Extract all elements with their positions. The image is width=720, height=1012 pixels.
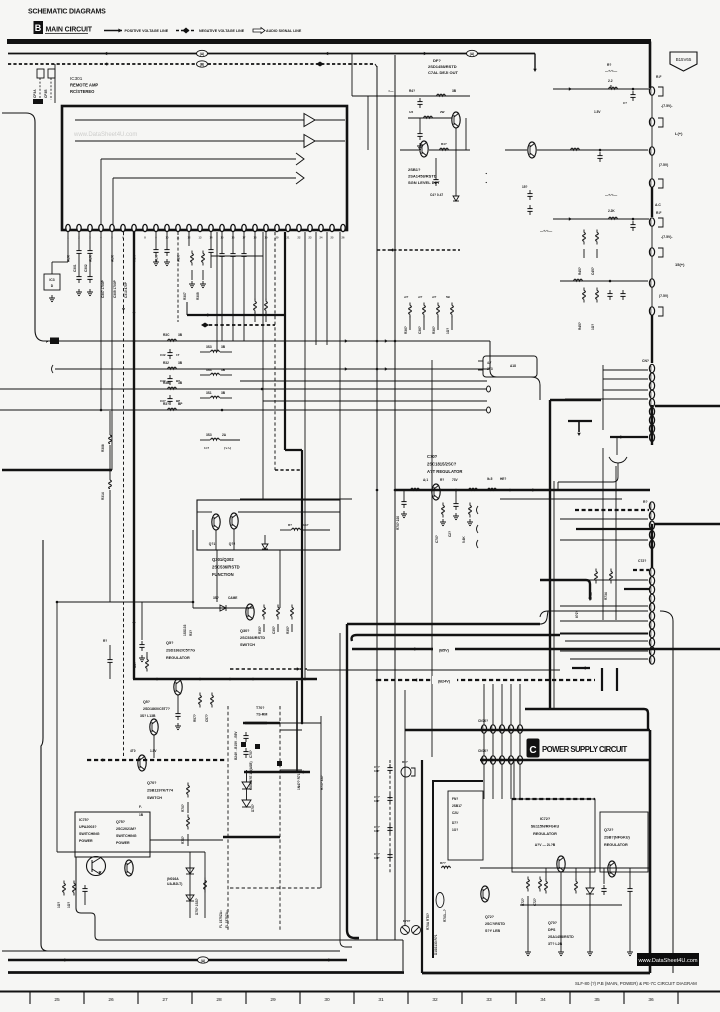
svg-text:Ik⋅5: Ik⋅5 bbox=[487, 477, 493, 481]
svg-text:xI?: xI? bbox=[432, 295, 437, 299]
svg-text:4.7: 4.7 bbox=[487, 361, 492, 365]
wire y256 link bbox=[211, 255, 263, 257]
wire pin14-16 stubs bbox=[221, 232, 223, 250]
transistor Q724 bbox=[481, 886, 489, 902]
capacitor C305 cluster bbox=[155, 232, 157, 246]
wire function block internals bbox=[197, 511, 212, 513]
pin 18 of IC301 bbox=[253, 224, 257, 231]
resistor network R333 bbox=[211, 396, 220, 398]
svg-text:A.C: A.C bbox=[655, 203, 661, 207]
wire x193 riser bbox=[192, 530, 194, 608]
wire thin return row segment B bbox=[500, 498, 622, 500]
transistor Q403 on feed bbox=[528, 142, 536, 158]
resistor R324 on row4 bbox=[168, 408, 177, 410]
wire dashed transformer core right bbox=[279, 706, 281, 930]
pin 25 of IC301 bbox=[330, 224, 334, 231]
wire dashed stub y250 bbox=[377, 249, 460, 251]
wire feed column x405 bbox=[404, 690, 406, 925]
wire pin19 long drop bbox=[284, 232, 286, 450]
svg-text:∘: ∘ bbox=[485, 171, 488, 176]
wire thick stub with right arrow bbox=[572, 667, 590, 669]
svg-text:T70?: T70? bbox=[256, 706, 264, 710]
resistor R341 in block bbox=[292, 528, 301, 530]
resistor R723 bbox=[545, 879, 547, 882]
capacitor C573 bbox=[177, 695, 179, 710]
connector CN701 pin 2 bbox=[490, 725, 495, 733]
resistor R314 bbox=[109, 477, 111, 480]
svg-text:13: 13 bbox=[199, 236, 202, 240]
section badge B bbox=[34, 21, 44, 34]
pin 14 of IC301 bbox=[209, 224, 213, 231]
svg-text:C57?: C57? bbox=[205, 714, 209, 722]
pin 21 of IC301 bbox=[286, 224, 290, 231]
wire thin x554 bbox=[553, 481, 555, 709]
connector CN302 pin 2 bbox=[649, 511, 654, 519]
svg-text:28: 28 bbox=[216, 997, 222, 1003]
svg-text:2W: 2W bbox=[440, 110, 445, 114]
wire secondary taps bbox=[280, 729, 302, 731]
svg-text:2SC536/RSTD: 2SC536/RSTD bbox=[240, 636, 265, 640]
svg-text:10P: 10P bbox=[374, 769, 379, 773]
svg-text:2SD1862/C5T7G: 2SD1862/C5T7G bbox=[166, 649, 195, 653]
resistor stack R722 bbox=[539, 877, 541, 880]
capacitor C703 below rail bbox=[455, 490, 457, 500]
pin 20 of IC301 bbox=[275, 224, 279, 231]
svg-text:Q75?: Q75? bbox=[116, 820, 125, 824]
svg-text:IC3: IC3 bbox=[49, 278, 54, 282]
svg-text:27: 27 bbox=[162, 997, 168, 1003]
resistor R303 bbox=[67, 232, 69, 243]
wire interior verticals bbox=[513, 760, 515, 800]
svg-text:3B: 3B bbox=[221, 345, 226, 349]
wire pin18 drop bbox=[265, 232, 267, 300]
connector CN702 pin 4 bbox=[508, 756, 513, 764]
svg-text:34: 34 bbox=[540, 997, 546, 1003]
svg-text:20: 20 bbox=[276, 236, 279, 240]
resistor R726 bbox=[442, 866, 451, 868]
svg-text:—∿∿—: —∿∿— bbox=[540, 229, 553, 233]
pin 23 of IC301 bbox=[308, 224, 312, 231]
svg-text:D1SS133 R?1: D1SS133 R?1 bbox=[434, 934, 438, 955]
wire thick jog pin19 bbox=[285, 449, 302, 451]
svg-text:3B: 3B bbox=[178, 381, 183, 385]
svg-text:C70?: C70? bbox=[435, 535, 439, 543]
transistor Q301 bbox=[212, 514, 220, 530]
wire thick dashed switch rail bbox=[87, 759, 227, 761]
svg-text:IC301: IC301 bbox=[70, 76, 83, 81]
svg-text:—∿∿—: —∿∿— bbox=[605, 193, 618, 197]
wire pin22 drop bbox=[326, 232, 328, 345]
wire audio bus row 2b bbox=[240, 380, 487, 382]
wire row1/2 terminus corner bbox=[490, 341, 540, 400]
svg-text:Q5?: Q5? bbox=[143, 700, 150, 704]
wire riser x217 below function box bbox=[216, 550, 218, 602]
svg-text:A;1: A;1 bbox=[423, 478, 428, 482]
wire pin6 dashed control line bbox=[123, 232, 125, 758]
wire thin row y519 bbox=[560, 518, 648, 520]
connector CN702 pin 5 bbox=[517, 756, 522, 764]
capacitor C751 bbox=[84, 885, 86, 889]
connector CN303 pin 4 bbox=[649, 594, 654, 602]
capacitor C705 stack bbox=[245, 732, 247, 736]
wire thin vertical x321 bbox=[320, 716, 322, 888]
svg-text:B15V65: B15V65 bbox=[676, 57, 692, 62]
resistor R707 bbox=[187, 815, 189, 818]
wire thick drop to label T bbox=[649, 730, 652, 973]
capacitor C724 bbox=[603, 885, 605, 889]
svg-text:A?V — 2L?B: A?V — 2L?B bbox=[535, 843, 556, 847]
svg-text:C2U: C2U bbox=[452, 811, 459, 815]
svg-text:Q30?: Q30? bbox=[240, 629, 250, 633]
wires to CN301 pins bbox=[603, 369, 648, 371]
connector CN301 pin 2 bbox=[649, 373, 654, 381]
svg-text:SWITCH: SWITCH bbox=[240, 643, 255, 647]
svg-text:2SB?(NFGKU): 2SB?(NFGKU) bbox=[604, 836, 630, 840]
wire thick feed y709 bbox=[525, 708, 644, 710]
svg-text:3B: 3B bbox=[178, 361, 183, 365]
transformer T701 top bar bbox=[245, 722, 280, 725]
svg-text:AUX: AUX bbox=[133, 254, 137, 262]
svg-text:22: 22 bbox=[298, 236, 301, 240]
wire second voltage bus bbox=[8, 53, 535, 55]
connector CN303 pin 9 bbox=[649, 638, 654, 646]
svg-text:2SB1197K/T74: 2SB1197K/T74 bbox=[147, 789, 174, 793]
wire thick regulator rail bbox=[133, 678, 317, 680]
wire drop x403 to bottom bus bbox=[402, 940, 404, 971]
wire thick connector link bbox=[651, 405, 653, 445]
resistor R755 column bbox=[204, 852, 206, 918]
connector CN301 pin 7 bbox=[649, 416, 654, 424]
connector R-OUT pin 1 bbox=[649, 87, 654, 95]
svg-text:1O?: 1O? bbox=[57, 902, 61, 908]
resistor network R331 row1 bbox=[211, 350, 220, 352]
svg-text:SWITCH: SWITCH bbox=[147, 796, 162, 800]
wire Q751 base feed bbox=[75, 851, 92, 853]
svg-text:C2?: C2? bbox=[448, 531, 452, 537]
svg-text:1O?: 1O? bbox=[452, 828, 458, 832]
wire top stub v bbox=[351, 54, 353, 97]
wire pin23 long thin drop bbox=[339, 232, 341, 500]
wire from dashed bus down to IC301 area bbox=[54, 64, 56, 103]
svg-text:2SC2021M?: 2SC2021M? bbox=[116, 827, 136, 831]
node A2 oval on bus bbox=[467, 50, 478, 56]
transistor Q725 bottom left of box bbox=[436, 893, 444, 908]
svg-text:HE?: HE? bbox=[500, 477, 506, 481]
wire stub x422 bbox=[421, 945, 423, 973]
wire sub-circuit left rail bbox=[367, 96, 369, 150]
svg-text:S?Y LEB: S?Y LEB bbox=[485, 929, 501, 933]
wire thick drop x302 bbox=[301, 450, 303, 723]
svg-text:3B: 3B bbox=[221, 391, 226, 395]
wire thick row y529 bbox=[576, 528, 652, 530]
wire main vertical bus V2 bbox=[394, 55, 396, 940]
svg-text:D75? 1SS?: D75? 1SS? bbox=[195, 898, 199, 915]
capacitor C702 below rail bbox=[403, 490, 405, 498]
svg-text:REMOTE AMP: REMOTE AMP bbox=[70, 83, 98, 88]
svg-text:1.5V: 1.5V bbox=[150, 749, 157, 753]
wire thick out to edge 2 bbox=[655, 523, 720, 526]
pin 3 of IC301 bbox=[88, 224, 92, 231]
wire sub-circuit right rail bbox=[465, 118, 467, 150]
op-amp IC301 main block bbox=[62, 106, 347, 230]
svg-text:C70?: C70? bbox=[427, 454, 438, 459]
wire thick stub 2 bbox=[610, 436, 648, 438]
transistor Q303 bbox=[246, 604, 254, 620]
wire vertical x263 bbox=[262, 232, 264, 500]
wire audio bus row 3b bbox=[263, 400, 487, 402]
wire feed to connector pin7 bbox=[560, 280, 648, 282]
svg-text:RC/STEREO: RC/STEREO bbox=[70, 89, 95, 94]
svg-text:Q72?: Q72? bbox=[604, 828, 614, 832]
svg-text:DF?: DF? bbox=[433, 58, 441, 63]
wire thick regulated rail bbox=[395, 489, 650, 491]
wire negative dashed bus bbox=[8, 63, 375, 65]
svg-text:1SS133: 1SS133 bbox=[183, 624, 187, 636]
wire thin primary extension bbox=[267, 722, 321, 724]
pin 10 of IC301 bbox=[165, 224, 169, 231]
pin 12 of IC301 bbox=[187, 224, 191, 231]
pin 4 of IC301 bbox=[99, 224, 103, 231]
svg-text:POWER: POWER bbox=[116, 841, 130, 845]
svg-text:3S3: 3S3 bbox=[206, 368, 212, 372]
svg-text:C32: C32 bbox=[160, 353, 166, 357]
diode D706 bbox=[242, 800, 251, 807]
svg-text:POWER SUPPLY CIRCUIT: POWER SUPPLY CIRCUIT bbox=[542, 745, 628, 754]
transistor Q751 power bbox=[87, 857, 106, 876]
diode D704 circled bbox=[412, 926, 421, 935]
connector CN301 pin 5 bbox=[649, 399, 654, 407]
svg-text:?S-RM: ?S-RM bbox=[256, 713, 267, 717]
svg-text:L(+): L(+) bbox=[675, 131, 683, 136]
svg-text:3S?: 3S? bbox=[213, 596, 219, 600]
svg-text:(B): (B) bbox=[200, 63, 204, 67]
wire thick drop x297 bbox=[296, 681, 298, 772]
wire audio bus row 2 bbox=[55, 368, 490, 370]
connector pin 7 bbox=[649, 279, 654, 287]
transistor Q752 bbox=[125, 860, 133, 876]
diode D401 bbox=[455, 128, 457, 196]
svg-text:POWER: POWER bbox=[79, 839, 93, 843]
svg-text:A?T REGULATOR: A?T REGULATOR bbox=[427, 469, 462, 474]
wire verticals x616 lower bbox=[615, 466, 617, 620]
wire right edge rail x673 bbox=[660, 611, 673, 973]
svg-text:R71? 3A?: R71? 3A? bbox=[320, 775, 324, 790]
resistor stack R721 bbox=[527, 877, 529, 880]
svg-text:CN70?: CN70? bbox=[478, 719, 488, 723]
pin 11 of IC301 bbox=[176, 224, 180, 231]
wire pin10 dashed drop bbox=[177, 232, 179, 320]
connector CN302 pin 1 bbox=[649, 502, 654, 510]
svg-text:R4?: R4? bbox=[409, 89, 415, 93]
svg-text:32: 32 bbox=[432, 997, 438, 1003]
svg-text:R?: R? bbox=[440, 478, 444, 482]
wire primary return to bridge bbox=[95, 936, 403, 940]
svg-text:FL 1575ZA□: FL 1575ZA□ bbox=[219, 910, 223, 928]
connector pin 4 bbox=[649, 179, 654, 187]
svg-text:5B: 5B bbox=[446, 295, 451, 299]
svg-text:10P: 10P bbox=[374, 829, 379, 833]
svg-text:33: 33 bbox=[486, 997, 492, 1003]
capacitor C714 bbox=[389, 851, 391, 855]
svg-text:(∿∿): (∿∿) bbox=[224, 446, 231, 450]
resistor R311 row bbox=[254, 299, 256, 302]
svg-text:(7.5V): (7.5V) bbox=[659, 163, 668, 167]
svg-text:3T? L2B: 3T? L2B bbox=[548, 942, 563, 946]
svg-text:R35?: R35? bbox=[258, 626, 262, 634]
wire vertical bus V3 bbox=[431, 360, 433, 757]
svg-text:CN?: CN? bbox=[642, 359, 649, 363]
capacitor C322 bbox=[169, 375, 171, 379]
capacitor C321 bbox=[169, 349, 171, 353]
connector pin 8 bbox=[649, 307, 654, 315]
svg-text:AUX: AUX bbox=[111, 254, 115, 262]
svg-text:∘: ∘ bbox=[485, 180, 488, 185]
svg-text:C70?: C70? bbox=[249, 750, 253, 758]
svg-text:C309 1700P: C309 1700P bbox=[113, 279, 117, 298]
svg-text:3S1: 3S1 bbox=[206, 391, 212, 395]
svg-text:R.F: R.F bbox=[656, 75, 661, 79]
resistor pair lower bbox=[211, 438, 220, 440]
wire risers from pins to stages bbox=[100, 159, 102, 226]
transistor Q402 bbox=[420, 141, 428, 157]
svg-text:1O?: 1O? bbox=[591, 324, 595, 330]
resistor R571 above rail bbox=[146, 657, 148, 660]
resistor R322 on row2 bbox=[168, 367, 177, 369]
connector CN702 pin 1 bbox=[481, 756, 486, 764]
wire x617 drop bbox=[616, 437, 618, 455]
pin 9 of IC301 bbox=[154, 224, 158, 231]
svg-text:SWITCHING: SWITCHING bbox=[79, 832, 100, 836]
svg-text:C45?: C45? bbox=[591, 267, 595, 275]
wire thick bus y730 bbox=[405, 729, 650, 732]
wire pin21 drop bbox=[315, 232, 317, 345]
wire thin return row segment A bbox=[240, 498, 352, 500]
component black marker near frame bbox=[33, 99, 43, 104]
svg-text:2SC536/RSTD: 2SC536/RSTD bbox=[212, 565, 240, 570]
svg-text:(A): (A) bbox=[470, 52, 474, 56]
svg-text:4T0: 4T0 bbox=[130, 749, 136, 753]
bracket shell pin1 bbox=[658, 87, 663, 96]
diode D751 column bbox=[189, 852, 191, 918]
svg-text:C35?: C35? bbox=[272, 626, 276, 634]
pin 1 of IC301 bbox=[66, 224, 70, 231]
wire inner thick rail y635 bbox=[352, 635, 560, 641]
svg-text:CAME: CAME bbox=[228, 596, 237, 600]
connector CP301 bbox=[37, 69, 44, 78]
node B oval on dashed bus bbox=[197, 61, 208, 67]
svg-text:1.5V: 1.5V bbox=[594, 110, 601, 114]
diode D705 bbox=[242, 782, 251, 789]
transistor Q723 bbox=[608, 861, 616, 877]
svg-text:29: 29 bbox=[270, 997, 276, 1003]
svg-text:R?: R? bbox=[103, 639, 107, 643]
wire thick T70 feed bbox=[550, 399, 601, 401]
wire audio bus row 3 bbox=[0, 388, 487, 390]
wire thick B+ stub left bbox=[2, 469, 112, 471]
resistor R706 bbox=[187, 783, 189, 786]
wire detector top rail bbox=[352, 95, 470, 97]
svg-text:3B: 3B bbox=[178, 333, 183, 337]
svg-text:R309: R309 bbox=[196, 292, 200, 300]
ruler ticks bbox=[29, 992, 31, 1005]
limiter stage 1 inside IC301 bbox=[101, 158, 296, 160]
svg-text:25: 25 bbox=[54, 997, 60, 1003]
svg-text:R?: R? bbox=[288, 523, 292, 527]
connector CN303 pin 2 bbox=[649, 577, 654, 585]
svg-text:R3C: R3C bbox=[163, 333, 170, 337]
legend positive voltage line bbox=[104, 30, 122, 32]
capacitor C712 bbox=[389, 794, 391, 798]
wire main B+ bus (thick top bar) bbox=[7, 39, 651, 44]
wire to R-OUT with resistor R451 bbox=[553, 88, 649, 90]
wire verticals x603 lower bbox=[602, 448, 604, 620]
resistor network R332 bbox=[211, 373, 220, 375]
svg-text:C72?: C72? bbox=[638, 559, 646, 563]
connector CN301 pin 6 bbox=[649, 407, 654, 415]
svg-text:2SD1458/RSTD: 2SD1458/RSTD bbox=[428, 64, 457, 69]
diode D303 bbox=[262, 544, 268, 549]
resistor R724 bbox=[575, 879, 577, 882]
svg-text:21: 21 bbox=[287, 236, 290, 240]
svg-text:R3?: R3? bbox=[163, 402, 169, 406]
capacitor C571 above rail bbox=[109, 645, 111, 656]
pin 17 of IC301 bbox=[242, 224, 246, 231]
wire riser x280 below function box bbox=[279, 550, 281, 608]
svg-text:R45?: R45? bbox=[578, 322, 582, 330]
svg-text:R?: R? bbox=[607, 63, 611, 67]
node A oval bottom bbox=[198, 957, 209, 963]
ruler line bbox=[0, 991, 720, 993]
svg-text:1S?: 1S? bbox=[303, 523, 309, 527]
wire between connector groups bbox=[651, 95, 653, 118]
capacitor row near IC right bbox=[529, 190, 531, 194]
svg-text:(N016A: (N016A bbox=[167, 877, 179, 881]
connector CN702 pin 2 bbox=[490, 756, 495, 764]
svg-text:AUX: AUX bbox=[155, 254, 159, 262]
wire thick bus y760 bbox=[480, 759, 650, 762]
connector CN303 pin 8 bbox=[649, 629, 654, 637]
block IC721 regulator bbox=[512, 798, 595, 800]
svg-text:25: 25 bbox=[331, 236, 334, 240]
svg-text:2SA1458/RSTD: 2SA1458/RSTD bbox=[408, 174, 437, 179]
svg-text:31: 31 bbox=[378, 997, 384, 1003]
pin 24 of IC301 bbox=[319, 224, 323, 231]
curly brace junction bbox=[609, 457, 627, 463]
frame left border lower bbox=[41, 540, 48, 951]
svg-text:Q5?: Q5? bbox=[166, 641, 174, 645]
svg-text:B24V→B15V→B5V: B24V→B15V→B5V bbox=[234, 731, 238, 760]
wire vertical x217 bbox=[216, 232, 218, 352]
svg-text:AUX: AUX bbox=[89, 254, 93, 262]
connector CN302 pin 3 bbox=[649, 521, 654, 529]
transistor Q572 bbox=[150, 719, 158, 735]
wire thick secondary bus top bbox=[347, 623, 540, 625]
wire thin rail x340 corner into bottom line bbox=[340, 633, 352, 947]
svg-text:R.F: R.F bbox=[656, 211, 661, 215]
wire pin17 drop bbox=[254, 232, 256, 300]
svg-text:10P: 10P bbox=[374, 856, 379, 860]
capacitor C713 bbox=[389, 824, 391, 828]
resistor divider stack A bbox=[583, 230, 585, 233]
connector CN302 pin 4 bbox=[649, 531, 654, 539]
capacitor C323 bbox=[169, 395, 171, 399]
frame left border upper bbox=[2, 113, 50, 341]
wire connector group2 links bbox=[651, 226, 653, 248]
block Q721 regulator bbox=[600, 812, 648, 872]
wire riser x187 bbox=[186, 302, 188, 315]
connector CN303 pin 7 bbox=[649, 621, 654, 629]
connector CN301 pin 9 bbox=[649, 433, 654, 441]
